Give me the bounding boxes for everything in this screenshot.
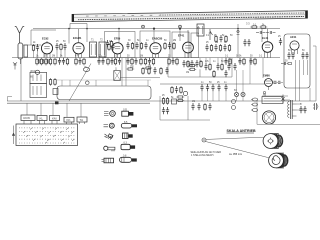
svg-text:Q: Q	[115, 69, 117, 71]
grid parts under V5	[182, 60, 185, 67]
MAIN-SCHEMATIC	[7, 11, 320, 168]
parts right of V2	[108, 43, 110, 51]
IF transformer T2	[99, 42, 106, 57]
volume pot cluster	[171, 86, 173, 94]
crystal filter box	[114, 71, 121, 81]
svg-text:SKALA ANTRIEB: SKALA ANTRIEB	[227, 129, 256, 133]
parts list row1 fuse icon	[122, 109, 134, 117]
ground symbols under V1	[37, 59, 40, 63]
svg-text:2M: 2M	[173, 40, 176, 42]
pushbutton KL	[37, 116, 47, 125]
svg-text:KL: KL	[40, 116, 44, 120]
svg-text:1M: 1M	[215, 42, 218, 44]
extra parts	[195, 60, 198, 67]
parts between V4 V5	[164, 42, 166, 50]
wire stubs	[206, 58, 229, 63]
pot resistor	[176, 96, 184, 98]
wire junction dots	[68, 28, 239, 30]
stage box B	[140, 31, 170, 58]
wire to magic eye	[250, 58, 283, 84]
dial lamp 2	[241, 92, 245, 96]
dial cord lower	[206, 142, 269, 158]
pushbutton TA	[77, 117, 87, 124]
svg-text:ca. 955 mm: ca. 955 mm	[229, 153, 242, 156]
capacitor cluster	[58, 58, 61, 65]
value labels row	[30, 25, 305, 106]
dial scale band	[72, 11, 308, 26]
oscillator coil	[83, 68, 89, 72]
part lead wires	[34, 50, 66, 57]
power supply rounded box	[284, 34, 310, 88]
tone resistor	[176, 99, 184, 101]
parts list row4 fuse icon	[121, 142, 135, 150]
dial glass rounded box	[57, 86, 151, 100]
IF transformer T3	[197, 24, 204, 36]
small box right of FM box	[53, 89, 58, 95]
output area wires	[257, 100, 320, 124]
parts list row2 fuse icon	[121, 121, 137, 128]
PU connector	[313, 103, 318, 110]
svg-text:AZ41: AZ41	[290, 35, 297, 39]
parts list row3 plug icon	[105, 134, 113, 140]
switch part x238	[237, 30, 240, 35]
tube V6 EL41	[262, 29, 273, 58]
svg-text:2M: 2M	[52, 56, 55, 58]
tone wires	[160, 96, 210, 120]
dial cord diagonal	[69, 64, 91, 102]
capacitor cluster	[97, 58, 100, 65]
svg-text:TA: TA	[80, 118, 84, 122]
tuning shaft	[202, 138, 206, 142]
svg-text:ECH81: ECH81	[73, 36, 82, 40]
dial cord upper	[206, 137, 264, 139]
FM tuner box lower	[30, 84, 47, 98]
mid bus wire	[160, 83, 250, 85]
junction ring 2	[179, 25, 182, 28]
svg-text:EL41: EL41	[262, 36, 269, 40]
tube V7 AZ41	[290, 41, 299, 54]
FM tuner box upper	[30, 70, 47, 83]
SKALA ANTRIEB title	[227, 129, 256, 133]
cross part	[281, 95, 284, 104]
cap vertical right of V6	[279, 38, 282, 45]
tube drop wires	[69, 29, 262, 58]
resistor right of FM box	[49, 78, 51, 86]
lamp socket 3	[251, 109, 258, 112]
wires V5 area	[168, 58, 232, 77]
cluster under V5	[168, 58, 170, 66]
pushbutton KK	[64, 117, 74, 124]
wire right border	[309, 88, 311, 101]
svg-text:EABC80: EABC80	[152, 37, 163, 41]
left aerial symbol	[13, 62, 17, 70]
cord drum lower	[269, 153, 288, 168]
wire x238 upper	[237, 24, 239, 29]
resistor cluster	[140, 58, 142, 66]
wire above dial glass	[57, 79, 151, 81]
deflection plates	[274, 81, 281, 83]
output transformer	[288, 100, 297, 119]
parts left of V1	[32, 44, 34, 52]
resistor cluster	[75, 58, 77, 66]
svg-text:UKW: UKW	[30, 71, 36, 73]
lamp socket 2	[251, 103, 258, 106]
svg-text:1M: 1M	[192, 101, 195, 103]
parts list row3 fuse icon	[123, 133, 133, 139]
output stage top resistors R39 R40	[250, 26, 258, 28]
lamp socket 1	[251, 98, 258, 101]
horizontal cap+res pair PSU	[281, 62, 292, 65]
AVC bus wire	[168, 76, 232, 78]
coupling coil L2	[24, 45, 28, 57]
switch column	[209, 29, 213, 40]
tone control cluster	[162, 97, 164, 105]
lamp wires	[237, 58, 251, 101]
horizontal resistor on AVC	[126, 68, 134, 70]
main B+ bus wire	[12, 57, 280, 59]
svg-text:1M: 1M	[148, 66, 151, 68]
glass stub wires	[62, 80, 148, 86]
loudspeaker	[262, 111, 275, 124]
svg-text:1M: 1M	[140, 56, 143, 58]
svg-text:EF41: EF41	[178, 34, 185, 38]
svg-text:EF89: EF89	[114, 37, 121, 41]
cap drop wires	[202, 91, 226, 101]
matrix pointer arrow	[12, 126, 15, 145]
antenna coil L1	[18, 43, 23, 64]
svg-text:KK: KK	[67, 118, 71, 122]
pushbutton AUS	[21, 115, 35, 124]
parts list row4 key icon	[104, 146, 115, 151]
svg-text:3 3: 3 3	[246, 22, 250, 26]
coupling caps horizontal	[256, 31, 266, 34]
wire	[23, 30, 56, 45]
AVC wire drops	[120, 58, 160, 86]
resistor right of FM box 2	[54, 78, 56, 86]
indicator dot	[263, 91, 265, 93]
dial lamp 1	[234, 92, 238, 96]
tube V1 EC92	[41, 41, 52, 58]
svg-text:EM80: EM80	[263, 74, 270, 78]
cluster right	[224, 58, 227, 65]
electrolytic caps	[232, 100, 236, 110]
ballast resistor box	[262, 97, 283, 104]
resistor R horizontal pair (AM det)	[188, 64, 196, 66]
hanging caps under mid bus	[200, 84, 203, 91]
svg-text:1 STELLUNG MECH.: 1 STELLUNG MECH.	[191, 154, 214, 157]
tube V2 ECH81	[73, 29, 84, 58]
cluster under bus right of V5	[204, 63, 207, 70]
antenna	[15, 27, 24, 43]
stage box D	[191, 33, 199, 58]
pushbutton KM	[50, 116, 60, 125]
svg-text:UKW: UKW	[23, 116, 30, 120]
mid cluster extra	[215, 35, 217, 43]
cord pulley	[86, 81, 90, 85]
resistor cluster under bus (left)	[36, 58, 38, 66]
svg-text:KM: KM	[52, 116, 57, 120]
second row parts mid	[142, 67, 144, 75]
cap pair mid right	[243, 39, 246, 46]
IF transformer T1	[90, 42, 97, 57]
parts list row5 fuse icon	[120, 154, 137, 162]
chassis terminal	[55, 102, 59, 105]
button riser wires	[27, 103, 81, 117]
junction ring 1	[142, 25, 145, 28]
resistor pair	[114, 58, 116, 66]
tone box	[172, 99, 177, 104]
svg-text:RB: RB	[263, 95, 267, 97]
top bus wire	[33, 28, 280, 30]
left vertical wire	[20, 58, 22, 101]
svg-text:EC92: EC92	[42, 37, 49, 41]
parts list row2 lamp icon	[104, 123, 115, 128]
right edge wire	[313, 46, 316, 101]
pot circle	[183, 91, 187, 95]
wire under magic eye	[262, 95, 288, 97]
tube V4 EABC80	[150, 43, 161, 58]
parts list row1 lamp icon	[104, 111, 115, 117]
PSU drop wires	[296, 60, 308, 101]
bottom chassis bus wire	[7, 101, 316, 103]
tone caps	[191, 103, 194, 110]
capacitor cluster	[126, 58, 129, 65]
cord note text	[191, 151, 243, 157]
parts right of V1	[55, 43, 58, 50]
parts right of V5	[205, 44, 208, 51]
tube V3 EF89	[112, 43, 123, 58]
tube V5 EF41	[183, 30, 194, 58]
cord drum upper	[263, 134, 283, 149]
output caps	[299, 106, 302, 113]
magic eye tube EM80	[265, 79, 273, 91]
feedback loop wire	[70, 24, 87, 29]
parts list row5 connector icon	[102, 158, 114, 163]
caps in PSU	[287, 52, 290, 59]
stage box C	[172, 32, 189, 58]
keyboard switch matrix box	[16, 124, 78, 146]
chassis stub	[8, 97, 13, 102]
svg-text:1M: 1M	[186, 72, 189, 74]
stage box A	[105, 32, 136, 58]
svg-text:Tr: Tr	[300, 103, 302, 106]
parts between V3 V4	[106, 40, 109, 47]
svg-text:6V: 6V	[234, 90, 237, 92]
